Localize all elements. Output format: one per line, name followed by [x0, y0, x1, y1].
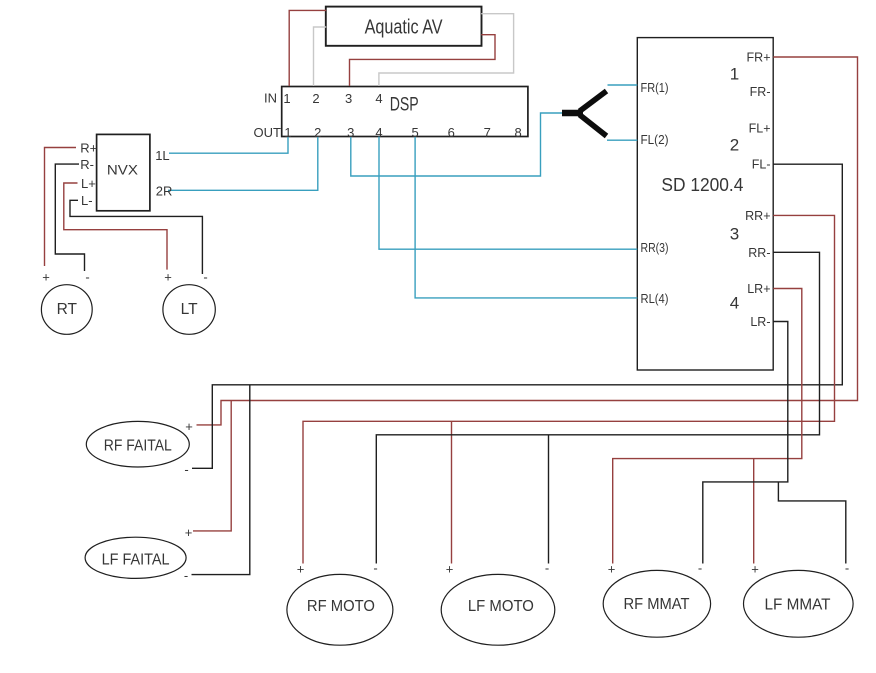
processor DSP	[282, 87, 528, 137]
wire branch FL- to LF FAITAL minus	[192, 385, 250, 575]
wire Y splitter lower to SD input FL(2)	[607, 139, 637, 141]
svg-text:FL(2): FL(2)	[641, 133, 669, 147]
wire SD RR+ to RF MOTO plus	[303, 215, 835, 563]
svg-text:DSP: DSP	[390, 94, 419, 115]
svg-text:FR(1): FR(1)	[641, 81, 669, 95]
svg-text:-: -	[545, 561, 549, 576]
svg-text:LR+: LR+	[747, 282, 770, 296]
svg-text:1L: 1L	[155, 148, 169, 163]
svg-text:4: 4	[375, 125, 382, 140]
svg-text:+: +	[42, 270, 50, 285]
svg-text:SD 1200.4: SD 1200.4	[661, 175, 743, 195]
svg-text:LF MMAT: LF MMAT	[765, 596, 831, 613]
svg-text:L-: L-	[81, 193, 93, 208]
wire DSP OUT 2 to NVX input 2R	[168, 137, 318, 191]
wire DSP OUT 4 to SD input RR(3)	[379, 137, 637, 250]
svg-text:RF MOTO: RF MOTO	[307, 598, 375, 615]
amplifier NVX	[97, 134, 150, 210]
speaker RT	[41, 285, 92, 335]
svg-text:RR(3): RR(3)	[641, 241, 669, 255]
svg-text:-: -	[373, 561, 377, 576]
svg-text:2: 2	[312, 91, 319, 106]
svg-text:OUT: OUT	[254, 125, 282, 140]
svg-text:3: 3	[730, 225, 739, 244]
wire RCA gray: Aquatic AV right to DSP IN 4	[379, 14, 514, 86]
svg-text:LR-: LR-	[750, 315, 770, 329]
svg-text:R+: R+	[80, 141, 97, 156]
svg-text:+: +	[185, 419, 193, 434]
speaker LF FAITAL	[85, 537, 186, 578]
svg-text:RT: RT	[57, 301, 78, 318]
svg-text:5: 5	[411, 125, 418, 140]
svg-text:RF MMAT: RF MMAT	[624, 596, 690, 613]
svg-text:6: 6	[448, 125, 455, 140]
wire NVX R- to RT minus	[55, 164, 84, 271]
wire branch FR+ to LF FAITAL plus	[193, 401, 231, 531]
svg-text:RR-: RR-	[748, 246, 770, 260]
speaker LT	[163, 285, 215, 335]
svg-text:3: 3	[345, 91, 352, 106]
svg-text:Aquatic AV: Aquatic AV	[365, 16, 444, 38]
svg-text:RR+: RR+	[745, 209, 770, 223]
svg-text:7: 7	[484, 125, 491, 140]
svg-text:-: -	[85, 270, 89, 285]
wire RCA gray: Aquatic AV left to DSP IN 2	[314, 27, 327, 86]
wire RCA red: Aquatic AV right to DSP IN 3	[350, 35, 496, 86]
svg-text:+: +	[608, 562, 616, 577]
speaker RF MMAT	[603, 570, 710, 637]
svg-text:1: 1	[284, 125, 291, 140]
wire NVX L- to LT minus	[70, 200, 202, 274]
svg-text:RL(4): RL(4)	[641, 292, 669, 306]
wire branch LR- to LF MMAT minus	[778, 482, 845, 564]
svg-text:4: 4	[375, 91, 382, 106]
svg-text:-: -	[203, 270, 207, 285]
wire branch LR+ to LF MMAT plus	[753, 459, 755, 564]
svg-text:RF FAITAL: RF FAITAL	[104, 438, 172, 455]
speaker RF MOTO	[287, 574, 393, 645]
speaker RF FAITAL	[86, 421, 189, 467]
wire SD FR+ to RF FAITAL plus	[197, 57, 858, 425]
svg-text:1: 1	[283, 91, 290, 106]
svg-text:-: -	[845, 561, 849, 576]
svg-text:3: 3	[347, 125, 354, 140]
wire SD LR+ to RF MMAT plus	[613, 289, 802, 564]
svg-text:2: 2	[314, 125, 321, 140]
svg-text:FL+: FL+	[749, 121, 771, 135]
svg-text:-: -	[184, 462, 188, 477]
svg-text:+: +	[751, 562, 759, 577]
speaker LF MMAT	[744, 570, 854, 637]
wire SD RR- to RF MOTO minus	[376, 252, 819, 563]
svg-text:+: +	[297, 562, 305, 577]
svg-text:2: 2	[730, 136, 739, 155]
svg-text:1: 1	[730, 65, 739, 84]
wire DSP OUT 5 to SD input RL(4)	[415, 137, 637, 298]
svg-text:-: -	[698, 561, 702, 576]
svg-text:LF MOTO: LF MOTO	[468, 598, 534, 615]
wire SD LR- to RF MMAT minus	[703, 322, 788, 564]
wire SD FL- to RF FAITAL minus	[192, 164, 842, 468]
svg-text:R-: R-	[80, 157, 94, 172]
wire RCA red: Aquatic AV left to DSP IN 1	[289, 10, 326, 86]
svg-text:LT: LT	[181, 301, 198, 318]
svg-text:+: +	[446, 562, 454, 577]
svg-text:NVX: NVX	[107, 162, 139, 178]
svg-text:FL-: FL-	[752, 158, 771, 172]
wire NVX R+ to RT plus	[45, 148, 77, 267]
svg-text:4: 4	[730, 293, 739, 312]
svg-text:FR-: FR-	[750, 85, 771, 99]
svg-text:+: +	[185, 525, 193, 540]
wire branch RR- to LF MOTO minus	[548, 435, 550, 564]
wire DSP OUT 1 to NVX input 1L	[169, 137, 288, 154]
wire branch RR+ to LF MOTO plus	[451, 421, 453, 563]
svg-text:+: +	[164, 270, 172, 285]
speaker LF MOTO	[441, 574, 555, 645]
svg-text:FR+: FR+	[747, 51, 771, 65]
wire DSP OUT 3 to Y splitter	[351, 113, 562, 176]
svg-text:2R: 2R	[156, 184, 173, 199]
svg-text:8: 8	[514, 125, 521, 140]
svg-text:LF FAITAL: LF FAITAL	[102, 551, 170, 568]
Y splitter adapter	[562, 91, 607, 136]
svg-text:-: -	[184, 568, 188, 583]
svg-text:IN: IN	[264, 90, 277, 105]
head unit Aquatic AV	[326, 7, 482, 46]
amplifier SD 1200.4	[637, 38, 773, 370]
svg-text:L+: L+	[81, 176, 96, 191]
wire Y splitter upper to SD input FR(1)	[608, 84, 638, 86]
wire NVX L+ to LT plus	[64, 183, 167, 270]
